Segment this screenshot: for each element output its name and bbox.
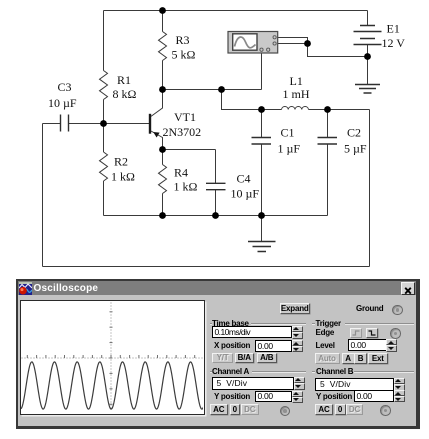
ground battery — [355, 85, 380, 94]
svg-text:1 mH: 1 mH — [283, 87, 310, 101]
wire R3 top lead — [162, 11, 164, 32]
svg-text:1 µF: 1 µF — [278, 142, 301, 156]
wire C4 top lead — [215, 150, 217, 184]
wire jog collector to node — [222, 90, 262, 110]
resistor R2 — [100, 152, 108, 181]
controls panel coordinates relative to winbody (page origin 17.5,280.5) — [280, 303, 311, 314]
inductor L1 — [282, 107, 309, 110]
svg-text:1 kΩ: 1 kΩ — [111, 170, 135, 184]
wire top rail — [104, 10, 368, 12]
wire C3 right lead — [69, 123, 104, 125]
svg-text:R4: R4 — [174, 166, 188, 180]
node collector junction — [159, 86, 166, 93]
wire oscilloscope ground lead — [261, 54, 263, 90]
node base junction — [100, 120, 107, 127]
svg-text:E1: E1 — [387, 22, 400, 36]
svg-text:L1: L1 — [290, 74, 303, 88]
capacitor C2 — [318, 138, 338, 145]
svg-text:10 µF: 10 µF — [231, 187, 260, 201]
wire trigger node to battery — [308, 44, 368, 57]
capacitor C1 — [252, 138, 272, 145]
node battery ground junction — [364, 53, 371, 60]
svg-text:R2: R2 — [114, 155, 128, 169]
svg-text:C3: C3 — [58, 80, 72, 94]
node C2 top junction — [324, 106, 331, 113]
wire C1 bottom lead — [261, 144, 263, 216]
wire L1 left lead — [262, 109, 282, 111]
svg-text:C2: C2 — [347, 126, 361, 140]
wire emitter node to C4 — [163, 149, 216, 151]
svg-text:VT1: VT1 — [174, 110, 196, 124]
node R4 bottom junction — [159, 212, 166, 219]
svg-text:12 V: 12 V — [382, 36, 406, 50]
wire C4 bottom lead — [215, 190, 217, 216]
svg-text:C1: C1 — [281, 126, 295, 140]
wire collector lead — [151, 90, 163, 117]
resistor R4 — [159, 165, 167, 194]
transistor VT1 — [150, 114, 160, 138]
battery E1 — [354, 26, 382, 45]
resistor R3 — [159, 32, 167, 61]
oscilloscope instrument icon — [228, 32, 278, 54]
svg-text:2N3702: 2N3702 — [163, 125, 202, 139]
wire scope channel B lead — [278, 43, 308, 45]
wire R2 top lead — [103, 124, 105, 153]
wire R3 bottom lead — [162, 61, 164, 90]
wire L1 right lead — [309, 109, 328, 111]
node top rail junction — [159, 7, 166, 14]
capacitor C4 — [206, 183, 226, 189]
svg-text:C4: C4 — [237, 172, 251, 186]
wire node to right rail — [328, 109, 370, 111]
wire left rail — [42, 124, 44, 267]
svg-text:R3: R3 — [176, 33, 190, 47]
wire C2 bottom lead — [327, 144, 329, 216]
svg-text:5 kΩ: 5 kΩ — [172, 48, 196, 62]
svg-text:10 µF: 10 µF — [48, 96, 77, 110]
svg-text:R1: R1 — [117, 73, 131, 87]
node collector jog junction — [218, 86, 225, 93]
wire right rail — [369, 110, 371, 267]
wire C3 left lead — [43, 123, 61, 125]
wire R2 bottom lead — [103, 181, 105, 216]
capacitor C3 — [61, 115, 69, 132]
node C1 top junction — [258, 106, 265, 113]
wire bottom outer rail — [43, 266, 370, 268]
node emitter junction — [159, 146, 166, 153]
svg-text:5 µF: 5 µF — [344, 142, 367, 156]
resistor R1 — [100, 71, 108, 100]
node scope input junction — [304, 40, 311, 47]
wire emitter lead — [151, 131, 163, 150]
wire battery bottom lead — [367, 45, 369, 85]
wire R4 bottom lead — [162, 194, 164, 216]
wire scope channel A lead — [278, 38, 308, 44]
wire R1 bottom lead — [103, 100, 105, 124]
wire C2 top lead — [327, 110, 329, 138]
wire collector node rail — [163, 89, 262, 91]
wire ground2 lead — [261, 216, 263, 242]
ground bottom — [248, 242, 276, 252]
wire R4 top lead — [162, 150, 164, 165]
node C4 bottom junction — [212, 212, 219, 219]
wire bottom rail — [104, 215, 328, 217]
wire R1 top lead — [103, 11, 105, 71]
svg-text:1 kΩ: 1 kΩ — [174, 180, 198, 194]
svg-text:8 kΩ: 8 kΩ — [113, 87, 137, 101]
node ground bottom junction — [258, 212, 265, 219]
wire C1 top lead — [261, 110, 263, 138]
wire battery top lead — [367, 11, 369, 26]
wire base lead — [104, 123, 150, 125]
